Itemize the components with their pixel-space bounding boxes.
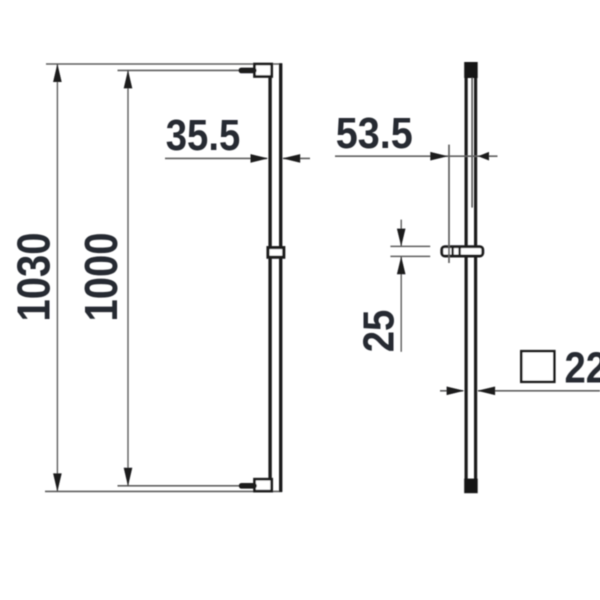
slider bracket divider 1 — [451, 246, 453, 257]
dimension line 25 lower — [400, 256, 402, 351]
arrow 1000 top — [124, 70, 133, 88]
dimension line 35.5 right part — [283, 157, 310, 159]
tick line 25 top — [390, 245, 430, 247]
slider bracket side view — [442, 247, 483, 256]
bottom bracket screw nub — [239, 483, 257, 489]
svg-text:22: 22 — [565, 343, 600, 392]
arrow 53.5 right — [478, 152, 489, 161]
arrow 35.5 left — [251, 154, 269, 163]
svg-text:25: 25 — [354, 310, 403, 353]
arrow 53.5 left — [430, 152, 448, 161]
arrow 35.5 right — [282, 154, 300, 163]
dimension line 22 left part — [440, 390, 463, 392]
slider bracket divider 2 — [458, 246, 460, 257]
arrow 25 down — [397, 229, 406, 247]
extension line top 1030 — [46, 63, 282, 65]
svg-text:1000: 1000 — [76, 232, 127, 321]
arrow 1030 bottom — [53, 473, 62, 491]
arrow 1000 bottom — [124, 468, 133, 486]
svg-text:53.5: 53.5 — [336, 108, 413, 157]
extension line top 1000 — [118, 69, 242, 71]
dimension line 22 right part — [478, 390, 600, 392]
svg-text:35.5: 35.5 — [166, 110, 240, 159]
bottom wall bracket box — [255, 479, 272, 491]
arrow 22 left — [447, 387, 465, 396]
extension line bottom 1030 — [45, 490, 282, 492]
extension line bottom 1000 — [118, 485, 241, 487]
arrow 25 up — [397, 256, 406, 274]
dimension line 1000 — [127, 70, 129, 485]
dimension line 1030 — [56, 64, 58, 491]
arrow 22 right — [477, 387, 495, 396]
svg-text:1030: 1030 — [9, 232, 60, 321]
extension line 53.5 — [448, 145, 450, 263]
dimension line 53.5 — [335, 155, 498, 157]
tick line 25 bottom — [390, 255, 430, 257]
top wall bracket box — [255, 64, 272, 77]
square profile symbol — [521, 351, 554, 382]
side view bottom end cap — [464, 479, 478, 494]
top bracket screw nub — [239, 68, 257, 74]
dimension line 25 upper — [400, 220, 402, 247]
dimension line 35.5 left part — [165, 157, 267, 159]
front view rail right edge — [279, 63, 282, 492]
side view rail left edge — [465, 63, 468, 493]
side view rail right edge — [474, 63, 477, 493]
inner rod line — [471, 78, 473, 207]
side view top end cap — [464, 62, 478, 78]
front view rail left edge — [268, 63, 271, 492]
slider collar front view — [268, 248, 284, 258]
arrow 1030 top — [53, 64, 62, 82]
